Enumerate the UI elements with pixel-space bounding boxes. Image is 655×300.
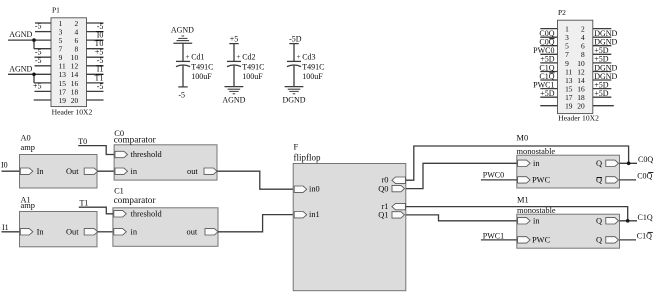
wire P2 pin 2 — [593, 28, 612, 30]
net label +5D — [540, 55, 555, 64]
svg-text:AGND: AGND — [9, 64, 32, 73]
net label -5 — [97, 56, 104, 65]
wire I1 to A1.In — [2, 231, 20, 233]
wire F.r0 to node C0Q — [406, 146, 629, 180]
wire P1 pin 9 — [35, 56, 52, 58]
net label I0 (active low) — [96, 31, 104, 40]
net label C1Q bar — [539, 72, 554, 81]
power -5D bar — [289, 34, 302, 43]
svg-text:AGND: AGND — [222, 96, 245, 105]
M0 reference and value — [517, 134, 556, 156]
wire Cd3 to DGND — [293, 66, 295, 87]
wire P2 pin 10 — [593, 62, 612, 64]
svg-text:+: + — [186, 53, 190, 61]
svg-text:P2: P2 — [558, 8, 566, 17]
svg-text:A0: A0 — [21, 134, 31, 143]
svg-text:flipflop: flipflop — [294, 153, 321, 163]
net label PWC1 — [533, 80, 554, 89]
wire P2 pin 18 — [593, 96, 612, 98]
wire P1 pin 6 — [87, 39, 104, 41]
wire P1 pin 7 — [34, 48, 51, 50]
svg-text:Cd1: Cd1 — [191, 53, 204, 62]
net label C1Q — [539, 63, 554, 72]
net label +5D — [540, 89, 555, 98]
wire P1 pin 15 — [34, 82, 51, 84]
net label -5 — [97, 82, 104, 91]
svg-text:r0: r0 — [382, 175, 389, 184]
ground AGND (bottom of Cd2) — [222, 87, 245, 105]
svg-text:Q: Q — [596, 176, 602, 185]
flip-flop block F — [293, 164, 406, 291]
capacitor Cd2 T491C 100uF — [227, 53, 264, 81]
wire P1 pin 19 — [34, 99, 51, 101]
svg-text:T0: T0 — [78, 137, 87, 146]
svg-text:in1: in1 — [309, 210, 320, 219]
wire AGND to Cd1 — [182, 43, 184, 61]
wire P2 pin 8 — [593, 53, 612, 55]
svg-text:+: + — [237, 53, 241, 61]
svg-text:Out: Out — [66, 228, 79, 237]
net label C0Q bar — [637, 171, 653, 180]
svg-text:100uF: 100uF — [302, 72, 323, 81]
svg-text:Cd3: Cd3 — [302, 53, 315, 62]
wire AGND link pins 13-15 — [33, 74, 35, 83]
svg-text:monostable: monostable — [517, 147, 556, 156]
wire P2 pin 3 — [540, 36, 557, 38]
wire P2 pin 14 — [593, 79, 612, 81]
wire PWC0 to M0.PWC — [481, 179, 517, 181]
svg-text:Header 10X2: Header 10X2 — [558, 114, 599, 123]
svg-text:in: in — [131, 228, 138, 237]
svg-text:T1: T1 — [80, 198, 89, 207]
wire P1 pin 1 — [35, 22, 51, 24]
wire P1 pin 12 — [87, 65, 104, 67]
svg-text:in: in — [131, 167, 138, 176]
net label C1Q bar — [637, 231, 653, 240]
comparator block C1 — [113, 208, 218, 247]
svg-text:-5: -5 — [97, 82, 104, 91]
C0 reference and value — [114, 129, 156, 145]
svg-text:-5D: -5D — [289, 34, 302, 43]
wire P2 pin 13 — [540, 79, 557, 81]
wire P2 pin 20 — [593, 105, 614, 107]
monostable block M0 — [517, 155, 620, 188]
wire +5 to Cd2 — [233, 44, 235, 62]
net label C0Q bar — [539, 38, 554, 47]
svg-text:comparator: comparator — [114, 195, 156, 205]
wire P2 pin 17 — [540, 96, 557, 98]
wire P2 pin 16 — [593, 88, 612, 90]
svg-text:F: F — [294, 142, 299, 151]
wire P2 pin 4 — [593, 36, 612, 38]
power +5 bar — [229, 34, 238, 43]
wire M1.Qbar out — [620, 239, 637, 241]
svg-text:I1: I1 — [2, 223, 9, 232]
wire P1 pin 8 — [87, 48, 104, 50]
svg-text:PWC0: PWC0 — [483, 171, 504, 180]
svg-text:Q: Q — [596, 217, 602, 226]
svg-text:in0: in0 — [309, 185, 320, 194]
svg-text:20: 20 — [71, 96, 79, 105]
svg-text:amp: amp — [21, 143, 35, 152]
svg-text:Cd2: Cd2 — [242, 53, 255, 62]
junction node C1Q — [626, 219, 630, 223]
svg-text:-5: -5 — [35, 22, 42, 31]
wire P1 pin 13 — [8, 73, 51, 75]
svg-text:AGND: AGND — [9, 30, 32, 39]
svg-text:AGND: AGND — [171, 25, 194, 34]
svg-text:C0Q: C0Q — [638, 155, 653, 164]
svg-text:-5: -5 — [178, 91, 185, 100]
monostable block M1 — [517, 214, 620, 248]
wire I0 to A0.In — [2, 170, 20, 172]
wire P1 pin 14 — [87, 73, 104, 75]
svg-text:19: 19 — [59, 96, 67, 105]
svg-text:+5D: +5D — [540, 89, 555, 98]
wire M0.Q to C0Q — [620, 162, 638, 164]
wire T1 to C1.threshold — [79, 207, 113, 214]
wire F.Q0 to M0.in — [406, 163, 517, 188]
wire AGND link pins 5-7 — [33, 40, 35, 49]
wire C1.out to F.in1 — [218, 215, 293, 232]
svg-text:T491C: T491C — [242, 63, 264, 72]
ground AGND flipped (top of Cd1) — [171, 25, 194, 43]
wire M1.Q to C1Q — [620, 220, 638, 222]
svg-text:in: in — [533, 159, 540, 168]
connector P1 (Header 10X2) — [51, 18, 87, 107]
svg-text:100uF: 100uF — [242, 72, 263, 81]
wire P2 pin 5 — [540, 45, 557, 47]
wire P2 pin 9 — [540, 62, 557, 64]
svg-text:in: in — [533, 217, 540, 226]
wire P2 pin 1 — [540, 28, 557, 30]
wire P1 pin 2 — [87, 22, 104, 24]
svg-text:M0: M0 — [517, 134, 529, 143]
capacitor Cd3 T491C 100uF — [287, 53, 324, 81]
wire F.Q1 to M1.in — [406, 215, 517, 221]
net label -5 — [97, 22, 104, 31]
svg-text:Q: Q — [596, 159, 602, 168]
svg-text:T491C: T491C — [302, 63, 324, 72]
C1 reference and value — [114, 187, 156, 205]
svg-text:Header 10X2: Header 10X2 — [52, 108, 93, 117]
svg-text:threshold: threshold — [131, 210, 163, 219]
svg-text:I0: I0 — [1, 161, 8, 170]
F reference and value — [294, 142, 321, 162]
wire M0.Qbar out — [620, 179, 637, 181]
svg-text:Q1: Q1 — [378, 211, 388, 220]
wire F.r1 to node C1Q — [406, 207, 628, 221]
wire -5D to Cd3 — [293, 44, 295, 62]
svg-text:DGND: DGND — [282, 96, 305, 105]
svg-text:Q: Q — [596, 236, 602, 245]
svg-text:In: In — [37, 228, 45, 237]
wire Cd1 to -5 — [182, 66, 184, 87]
power -5 bar — [178, 87, 187, 100]
svg-text:r1: r1 — [382, 202, 389, 211]
op-amp block A1 (amp) — [20, 212, 98, 247]
net label C0Q — [539, 29, 554, 38]
svg-text:Out: Out — [66, 167, 79, 176]
comparator block C0 — [114, 145, 217, 180]
wire P2 pin 6 — [593, 45, 612, 47]
wire P1 pin 10 — [87, 56, 104, 58]
svg-text:20: 20 — [577, 102, 585, 111]
connector P2 (Header 10X2) — [558, 20, 593, 113]
wire A0.Out to C0.in — [97, 170, 114, 172]
svg-text:Q0: Q0 — [378, 184, 388, 193]
svg-text:amp: amp — [21, 201, 35, 210]
svg-text:+5: +5 — [33, 82, 42, 91]
svg-text:+5: +5 — [230, 34, 239, 43]
svg-text:P1: P1 — [52, 6, 60, 15]
wire P1 pin 17 — [35, 90, 52, 92]
junction node C0Q — [627, 162, 631, 166]
op-amp block A0 (amp) — [20, 155, 98, 189]
wire P2 pin 7 — [540, 53, 557, 55]
M1 reference and value — [517, 196, 556, 215]
wire P1 pin 4 — [87, 31, 104, 33]
svg-text:+5D: +5D — [594, 89, 609, 98]
A0 reference and value — [21, 134, 35, 153]
A1 reference and value — [21, 195, 35, 210]
capacitor Cd1 T491C 100uF — [176, 53, 213, 81]
net label T1 (active low) — [95, 73, 104, 82]
wire P2 pin 11 — [540, 71, 557, 73]
net label I1 (active low) — [96, 65, 104, 74]
svg-text:In: In — [37, 167, 45, 176]
net label +5 — [95, 48, 104, 57]
wire P2 pin 15 — [540, 88, 557, 90]
wire P2 pin 12 — [593, 71, 612, 73]
svg-text:100uF: 100uF — [191, 72, 212, 81]
wire P1 pin 3 — [35, 31, 51, 33]
wire T0 to C0.threshold — [78, 146, 114, 155]
svg-text:M1: M1 — [517, 196, 529, 205]
wire Cd2 to AGND — [233, 66, 235, 87]
svg-text:PWC1: PWC1 — [483, 232, 504, 241]
svg-text:comparator: comparator — [114, 135, 156, 145]
wire PWC1 to M1.PWC — [481, 239, 517, 241]
svg-text:threshold: threshold — [131, 150, 163, 159]
ground DGND (bottom of Cd3) — [282, 87, 305, 105]
wire P1 pin 5 — [8, 39, 51, 41]
wire P1 pin 20 — [87, 99, 104, 101]
junction node AGND — [32, 73, 36, 77]
wire P1 pin 18 — [87, 90, 104, 92]
svg-text:+: + — [297, 53, 301, 61]
wire P1 pin 11 — [35, 65, 52, 67]
svg-text:out: out — [187, 228, 198, 237]
svg-text:out: out — [187, 167, 198, 176]
net label PWC0 — [533, 46, 554, 55]
svg-text:T491C: T491C — [191, 63, 213, 72]
svg-text:-5: -5 — [35, 56, 42, 65]
wire P2 pin 19 — [540, 105, 557, 107]
svg-text:19: 19 — [565, 102, 573, 111]
net label T0 (active low) — [95, 39, 104, 48]
junction node AGND — [32, 38, 36, 42]
svg-text:C1Q: C1Q — [638, 213, 653, 222]
svg-text:PWC: PWC — [532, 236, 551, 245]
svg-text:PWC: PWC — [532, 176, 551, 185]
wire P1 pin 16 — [87, 82, 104, 84]
wire A1.Out to C1.in — [97, 231, 113, 233]
wire C0.out to F.in0 — [217, 171, 293, 189]
